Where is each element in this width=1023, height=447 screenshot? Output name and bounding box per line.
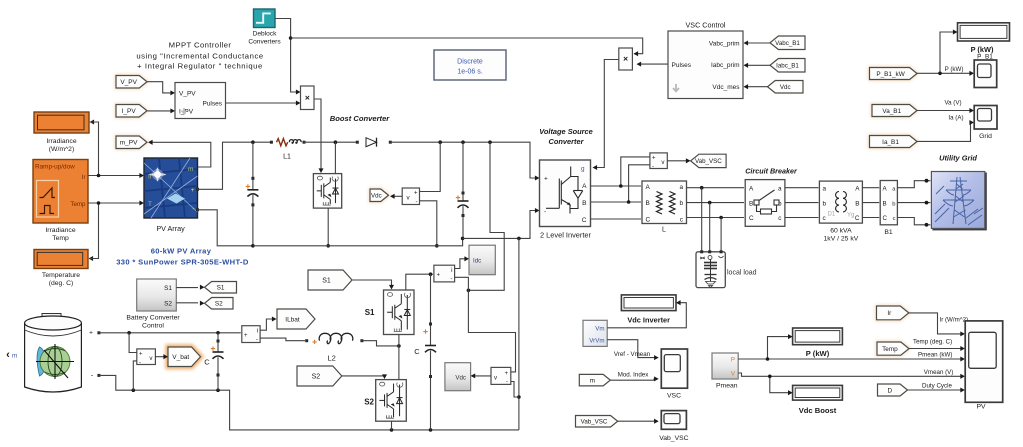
svg-text:-: - xyxy=(139,360,141,366)
junction v2- tap xyxy=(517,395,521,399)
bottom rail PV side xyxy=(253,238,463,245)
tag Vab_VSC (From) xyxy=(576,416,618,428)
svg-text:×: × xyxy=(623,54,628,64)
wire battery + rail xyxy=(99,332,241,334)
wire ILbat- to L2 xyxy=(260,338,305,341)
tag Va_B1 (From) xyxy=(872,105,917,117)
scope VSC xyxy=(661,349,687,388)
scope P_B1 xyxy=(974,60,997,88)
svg-text:Temp: Temp xyxy=(882,346,898,353)
display Temperature (deg. C) xyxy=(34,250,88,269)
svg-text:Vab_VSC: Vab_VSC xyxy=(659,435,688,442)
svg-text:-: - xyxy=(192,206,194,213)
svg-text:Temp (deg. C): Temp (deg. C) xyxy=(913,339,952,346)
svg-text:A: A xyxy=(646,184,651,191)
block Idc (gray) xyxy=(469,245,495,275)
svg-text:-: - xyxy=(652,164,654,170)
svg-text:Control: Control xyxy=(142,323,164,330)
tag Vdc (From, VSC) xyxy=(768,81,804,94)
svg-text:Vab_VSC: Vab_VSC xyxy=(695,158,722,165)
IGBT S1 xyxy=(384,290,415,335)
tag Vabc_B1 (From) xyxy=(770,36,805,50)
svg-text:PV: PV xyxy=(976,404,986,411)
svg-text:L1: L1 xyxy=(283,154,291,161)
svg-text:Ia (A): Ia (A) xyxy=(948,115,963,122)
svg-text:(deg. C): (deg. C) xyxy=(49,280,74,287)
svg-text:VrVm: VrVm xyxy=(589,337,604,344)
svg-text:Pmean: Pmean xyxy=(716,383,738,390)
svg-text:P: P xyxy=(731,357,735,364)
wires breaker to transformer xyxy=(785,187,819,189)
wire S1 emitter to midpoint xyxy=(398,335,400,346)
svg-text:VSC: VSC xyxy=(667,393,681,400)
svg-text:Va_B1: Va_B1 xyxy=(882,108,901,115)
svg-text:Vmean (V): Vmean (V) xyxy=(924,369,954,376)
junction DC- rail at Vdc riser xyxy=(517,237,521,241)
wire inverter A to L xyxy=(591,185,642,187)
wire inverter C to L xyxy=(591,218,642,220)
block local load xyxy=(696,252,725,288)
wires B1 to Utility Grid xyxy=(897,181,930,188)
block Circuit Breaker xyxy=(745,180,785,227)
svg-text:+: + xyxy=(544,176,548,183)
svg-text:Converter: Converter xyxy=(549,137,585,146)
block Vdc (gray) xyxy=(445,363,471,391)
wire cap1 bottom rail junction xyxy=(251,244,255,248)
svg-text:+: + xyxy=(504,371,508,377)
svg-text:C: C xyxy=(749,215,754,222)
svg-text:Discrete: Discrete xyxy=(457,59,483,66)
svg-text:Converters: Converters xyxy=(248,39,281,46)
wire control S2 to tag xyxy=(176,302,198,304)
svg-text:Grid: Grid xyxy=(979,133,992,140)
svg-text:Battery Converter: Battery Converter xyxy=(126,315,180,322)
svg-text:Ir: Ir xyxy=(82,174,86,181)
wire D to PV scope xyxy=(908,389,964,391)
block MPPT Controller xyxy=(175,83,226,119)
svg-text:L: L xyxy=(662,227,666,234)
svg-text:a: a xyxy=(778,186,782,193)
svg-text:Vabc_B1: Vabc_B1 xyxy=(775,40,800,47)
scope Vab_VSC xyxy=(661,411,686,430)
svg-text:-: - xyxy=(256,337,258,343)
wire P_B1_kW to scope and display xyxy=(917,72,973,74)
svg-text:B: B xyxy=(883,200,887,207)
svg-text:Ramp-up/dow: Ramp-up/dow xyxy=(35,164,75,171)
svg-text:Boost Converter: Boost Converter xyxy=(330,114,391,123)
wire control S1 to tag xyxy=(176,287,198,289)
svg-text:(W/m^2): (W/m^2) xyxy=(49,146,74,153)
junction top bus at cap1 xyxy=(251,140,255,144)
wire I_PV to MPPT xyxy=(148,110,175,112)
svg-text:D1: D1 xyxy=(828,212,836,218)
block Pmean xyxy=(712,353,738,379)
svg-text:+: + xyxy=(414,191,418,197)
current measurement Idc sensor xyxy=(434,265,455,282)
display P (kW) bottom xyxy=(793,328,843,345)
svg-text:Pulses: Pulses xyxy=(202,101,222,108)
wire X1 output to boost IGBT gate xyxy=(314,99,321,170)
svg-text:Utility Grid: Utility Grid xyxy=(939,154,977,163)
svg-text:L2: L2 xyxy=(328,354,336,363)
svg-text:Temp: Temp xyxy=(70,201,86,208)
block Deblock Converters (manual switch, teal) xyxy=(254,9,276,28)
svg-text:Idc: Idc xyxy=(473,258,481,265)
wires transformer to B1 xyxy=(862,187,879,189)
wire Deblock output to product X1 xyxy=(275,19,300,93)
svg-text:A: A xyxy=(855,186,860,193)
svg-text:S2: S2 xyxy=(364,398,374,407)
voltage measurement Vdc link xyxy=(491,367,511,384)
DC- rail to inverter - xyxy=(463,211,539,239)
wire top bus to v1+ xyxy=(420,142,441,191)
wire boost IGBT emitter to bottom rail xyxy=(327,208,329,246)
tag Vdc (Goto, boost) xyxy=(370,189,389,202)
svg-text:C: C xyxy=(855,215,860,222)
wire Vdc to VSC Control xyxy=(745,86,768,88)
wire S1 collector riser xyxy=(406,274,433,290)
svg-text:B: B xyxy=(749,200,753,207)
block 2 Level Inverter xyxy=(540,160,591,227)
current measurement ILbat xyxy=(242,326,260,343)
wire Pmean P to display and PV scope xyxy=(738,358,964,360)
wire PV- to bottom rail xyxy=(198,210,253,246)
svg-text:1kV / 25 kV: 1kV / 25 kV xyxy=(824,236,859,243)
tag S1 (From, gate) xyxy=(308,270,352,290)
svg-text:Circuit Breaker: Circuit Breaker xyxy=(745,167,798,176)
wire Ir to PV scope xyxy=(909,313,964,334)
tag Temp (From) xyxy=(877,342,909,355)
svg-text:Vm: Vm xyxy=(595,325,604,332)
svg-text:B: B xyxy=(855,200,859,207)
wire battery link from top bus down xyxy=(468,142,504,290)
svg-text:Vref - Vmean: Vref - Vmean xyxy=(614,351,651,358)
svg-text:S1: S1 xyxy=(164,285,172,292)
svg-text:60-kW PV Array: 60-kW PV Array xyxy=(151,247,212,256)
inductor L2 xyxy=(305,339,308,342)
svg-text:+: + xyxy=(89,330,93,337)
svg-text:P (kW): P (kW) xyxy=(806,349,830,358)
wire Ia_B1 to Grid scope xyxy=(917,123,973,142)
voltage measurement V_bat xyxy=(137,349,156,365)
wire Vab_VSC to scope xyxy=(618,420,658,422)
junction midpoint battery converter xyxy=(397,344,401,348)
wire Ramp Ir to PV array and Irradiance display xyxy=(88,175,143,177)
wire Temp to PV scope xyxy=(909,348,964,350)
svg-text:C: C xyxy=(414,347,420,356)
svg-text:A: A xyxy=(749,186,754,193)
junction A line xyxy=(619,184,623,188)
svg-text:-: - xyxy=(451,276,453,282)
svg-text:Temperature: Temperature xyxy=(42,272,80,279)
wire VSC Pulses to X2 xyxy=(638,63,669,65)
wire midpoint to S2 collector xyxy=(398,346,400,380)
block Battery Converter Control xyxy=(137,279,177,311)
svg-text:Irradiance: Irradiance xyxy=(45,227,75,234)
wire PV+ to top DC bus xyxy=(198,142,271,189)
wire Vabc_B1 to VSC Control xyxy=(745,42,771,44)
junction cap C battery converter xyxy=(429,272,433,276)
svg-text:Vdc: Vdc xyxy=(371,192,382,199)
tag D (From) xyxy=(878,384,908,396)
svg-text:C: C xyxy=(883,215,888,222)
wire X2 output to inverter g xyxy=(594,60,619,168)
junction top bus cap2 xyxy=(461,140,465,144)
svg-text:Vdc: Vdc xyxy=(780,84,791,91)
svg-text:1e-06 s.: 1e-06 s. xyxy=(457,69,482,76)
wire Va_B1 to Grid scope xyxy=(917,110,973,112)
svg-text:Vdc Inverter: Vdc Inverter xyxy=(627,316,670,325)
svg-text:local load: local load xyxy=(727,270,757,277)
block VSC Control xyxy=(668,31,743,99)
svg-text:Vdc Boost: Vdc Boost xyxy=(799,406,837,415)
svg-text:Ia_B1: Ia_B1 xyxy=(882,139,899,146)
svg-text:S1: S1 xyxy=(322,278,331,285)
wire PV m output to m_PV tag xyxy=(149,142,211,167)
svg-text:‹: ‹ xyxy=(6,349,10,361)
wire diode to inverter + (top bus) xyxy=(390,142,538,178)
svg-text:2 Level Inverter: 2 Level Inverter xyxy=(540,231,591,240)
svg-text:-: - xyxy=(544,208,546,215)
block Vm VrVm mean xyxy=(583,320,607,346)
wire MPPT Pulses to product X1 xyxy=(226,102,300,104)
svg-text:PV Array: PV Array xyxy=(156,224,185,233)
wire V_PV to MPPT xyxy=(147,82,174,93)
svg-text:c: c xyxy=(893,216,896,222)
capacitor C boost input xyxy=(252,142,254,190)
display Irradiance (W/m^2) xyxy=(34,112,89,133)
tag S2 (From, gate) xyxy=(297,366,342,386)
source block Ramp-up/down Irradiance Temp xyxy=(33,160,88,224)
product X2 (multiply) xyxy=(619,48,633,70)
svg-text:D: D xyxy=(887,387,892,394)
wire battery - rail xyxy=(99,375,519,430)
capacitor C battery converter output xyxy=(430,274,432,345)
product X1 (multiply) xyxy=(301,86,315,110)
svg-text:I_PV: I_PV xyxy=(122,108,137,115)
svg-text:330 * SunPower SPR-305E-WHT-D: 330 * SunPower SPR-305E-WHT-D xyxy=(116,258,249,267)
svg-text:b: b xyxy=(823,200,827,207)
wire inverter B to L xyxy=(591,201,642,203)
wires down to local load xyxy=(701,188,703,251)
tag m_PV (Goto) xyxy=(116,136,147,149)
svg-text:+: + xyxy=(437,273,441,279)
svg-text:T: T xyxy=(148,201,152,208)
svg-text:ILbat: ILbat xyxy=(285,316,300,323)
diode boost xyxy=(356,141,359,144)
block Utility Grid (tower image) xyxy=(931,172,986,231)
svg-text:m: m xyxy=(590,377,595,384)
wire DC- riser to bottom rail xyxy=(518,238,520,430)
svg-text:S2: S2 xyxy=(215,301,223,308)
voltage measurement Vdc boost xyxy=(402,188,419,205)
capacitor C battery side xyxy=(217,333,219,352)
junction top bus at IGBT riser xyxy=(334,140,338,144)
svg-text:P_B1_kW: P_B1_kW xyxy=(876,71,905,78)
tag S1 (Goto) xyxy=(205,282,237,294)
svg-text:Yg: Yg xyxy=(847,213,854,219)
svg-text:i: i xyxy=(451,267,452,274)
wire battery DC+ node to v2+ xyxy=(468,290,515,372)
tag ILbat (From... goto) xyxy=(277,309,315,329)
tag m (From) xyxy=(579,374,610,386)
tag Vab_VSC (Goto) xyxy=(691,154,727,167)
svg-text:Iabc_B1: Iabc_B1 xyxy=(776,62,799,69)
svg-text:Vabc_prim: Vabc_prim xyxy=(709,41,740,48)
svg-text:+: + xyxy=(244,333,248,339)
tag Iabc_B1 (From) xyxy=(770,59,805,73)
svg-text:Irradiance: Irradiance xyxy=(46,138,76,145)
svg-text:a: a xyxy=(823,186,827,193)
svg-text:Vdc_mes: Vdc_mes xyxy=(712,84,740,91)
svg-text:+: + xyxy=(191,187,195,194)
svg-text:-: - xyxy=(506,380,508,386)
wire v1- to bottom rail xyxy=(420,201,437,246)
wires L to breaker with local load taps xyxy=(687,187,745,189)
svg-text:MPPT Controller: MPPT Controller xyxy=(169,41,232,50)
junction DC- rail at cap2 xyxy=(461,237,465,241)
svg-text:S1: S1 xyxy=(217,285,225,292)
wire Vm to Vdc Inverter display xyxy=(607,303,686,328)
display Vdc Boost xyxy=(793,385,843,400)
svg-text:C: C xyxy=(646,216,651,223)
tag P_B1_kW (From) xyxy=(870,68,918,80)
wire L2 to midpoint node xyxy=(362,341,399,346)
block Discrete powergui xyxy=(434,50,506,80)
svg-text:Iabc_prim: Iabc_prim xyxy=(711,62,740,69)
svg-text:Ir (W/m^2): Ir (W/m^2) xyxy=(940,317,969,324)
svg-text:m: m xyxy=(188,166,194,173)
wire Pmean V to display and PV scope xyxy=(738,373,964,376)
svg-text:Voltage Source: Voltage Source xyxy=(539,127,593,136)
wire ILbat i to tag xyxy=(260,319,272,330)
junction top bus v1+ xyxy=(438,140,442,144)
wire L1 to diode xyxy=(304,141,357,143)
svg-text:S2: S2 xyxy=(312,374,321,381)
svg-text:Mod. Index: Mod. Index xyxy=(618,372,650,379)
wire Idc sensor - to DC+ node xyxy=(455,277,469,290)
svg-text:+ Integral Regulator " techni: + Integral Regulator " technique xyxy=(137,62,263,71)
block B1 three-phase measurement xyxy=(880,181,897,225)
wire Idc sensor i to Idc block xyxy=(455,259,468,269)
svg-text:b: b xyxy=(892,201,895,207)
inductor L1 xyxy=(270,141,273,144)
scope Grid xyxy=(974,106,997,130)
wire v_bat to V_bat tag xyxy=(155,356,167,358)
boost IGBT switch xyxy=(313,174,341,209)
svg-text:+: + xyxy=(139,351,143,357)
svg-text:VSC Control: VSC Control xyxy=(686,21,726,30)
tag V_PV (From) xyxy=(116,76,147,89)
block PV Array (solar panel image) xyxy=(144,158,198,218)
svg-text:60 kVA: 60 kVA xyxy=(830,228,852,235)
scope PV xyxy=(965,321,1003,402)
junction deblock line xyxy=(289,36,293,40)
svg-text:Temp: Temp xyxy=(52,235,69,242)
svg-text:×: × xyxy=(305,93,310,103)
tag S2 (Goto) xyxy=(205,298,234,310)
wire VrVm to VSC scope xyxy=(607,340,658,358)
block L three-phase inductor xyxy=(642,181,687,224)
svg-text:g: g xyxy=(581,166,585,173)
wire v3 to Vab_VSC tag xyxy=(667,160,689,162)
wire v2 output to Vdc block xyxy=(472,375,491,377)
svg-text:Deblock: Deblock xyxy=(253,31,278,38)
junction battery DC+ node xyxy=(467,289,471,293)
svg-text:Va (V): Va (V) xyxy=(944,100,961,107)
svg-text:C: C xyxy=(582,217,587,224)
svg-text:P (kW): P (kW) xyxy=(945,66,964,73)
tag Ia_B1 (From) xyxy=(870,136,918,148)
svg-text:i: i xyxy=(257,327,258,334)
block transformer 60kVA xyxy=(819,181,862,223)
svg-text:a: a xyxy=(679,184,683,191)
svg-text:m_PV: m_PV xyxy=(120,140,138,147)
wire boost IGBT collector to top bus xyxy=(334,142,336,173)
svg-text:C: C xyxy=(204,358,210,367)
wire deblock to product X2 (long) xyxy=(291,38,643,54)
svg-text:B: B xyxy=(646,200,650,207)
svg-text:-: - xyxy=(416,199,418,205)
voltage measurement Vab_VSC xyxy=(650,153,667,169)
wire S2 tag to S2 gate xyxy=(342,375,385,378)
svg-text:V_PV: V_PV xyxy=(120,79,137,86)
tag Ir (From) xyxy=(877,306,909,320)
tag I_PV (From) xyxy=(116,105,147,118)
junction B line xyxy=(627,200,631,204)
svg-text:V_PV: V_PV xyxy=(179,90,196,97)
svg-text:V: V xyxy=(731,371,736,378)
svg-text:Vab_VSC: Vab_VSC xyxy=(581,418,608,425)
svg-text:V_bat: V_bat xyxy=(172,354,189,361)
wire v2- to bottom rail riser xyxy=(511,382,519,398)
svg-text:B: B xyxy=(582,200,587,207)
wire S1 tag to S1 gate xyxy=(352,280,392,287)
svg-text:Pulses: Pulses xyxy=(672,62,692,69)
svg-text:B1: B1 xyxy=(884,229,893,236)
svg-text:Pmean (kW): Pmean (kW) xyxy=(918,352,952,359)
wire v_bat- to - rail xyxy=(133,361,137,390)
svg-text:Vdc: Vdc xyxy=(455,375,466,382)
svg-text:S2: S2 xyxy=(164,300,172,307)
wire Iabc_B1 to VSC Control xyxy=(745,64,771,66)
svg-text:b: b xyxy=(679,200,683,207)
wire m to VSC scope xyxy=(610,379,657,380)
svg-text:+: + xyxy=(652,156,656,162)
wire B line to v3- xyxy=(629,165,650,202)
block battery (image) xyxy=(25,314,82,393)
wire battery + to v_bat+ xyxy=(129,333,137,353)
IGBT S2 xyxy=(376,380,407,422)
wire S2 emitter to bottom rail xyxy=(391,421,393,430)
svg-text:A: A xyxy=(582,183,587,190)
svg-text:using "Incremental Conductanc: using "Incremental Conductance xyxy=(136,52,263,61)
svg-text:Duty Cycle: Duty Cycle xyxy=(922,383,952,390)
display Vdc Inverter xyxy=(621,295,676,311)
svg-text:m: m xyxy=(12,353,17,360)
tag V_bat (Goto, highlighted) xyxy=(168,347,201,367)
capacitor C boost output xyxy=(462,142,464,201)
junction load taps xyxy=(700,186,704,190)
wire v1 output to Vdc tag xyxy=(391,195,402,197)
display P (kW) top right xyxy=(958,23,1010,41)
svg-text:S1: S1 xyxy=(365,308,375,317)
wire A line to v3+ xyxy=(621,157,650,186)
junction top bus battery link xyxy=(488,140,492,144)
wire Ramp Temp to PV array and Temperature display xyxy=(88,202,143,204)
